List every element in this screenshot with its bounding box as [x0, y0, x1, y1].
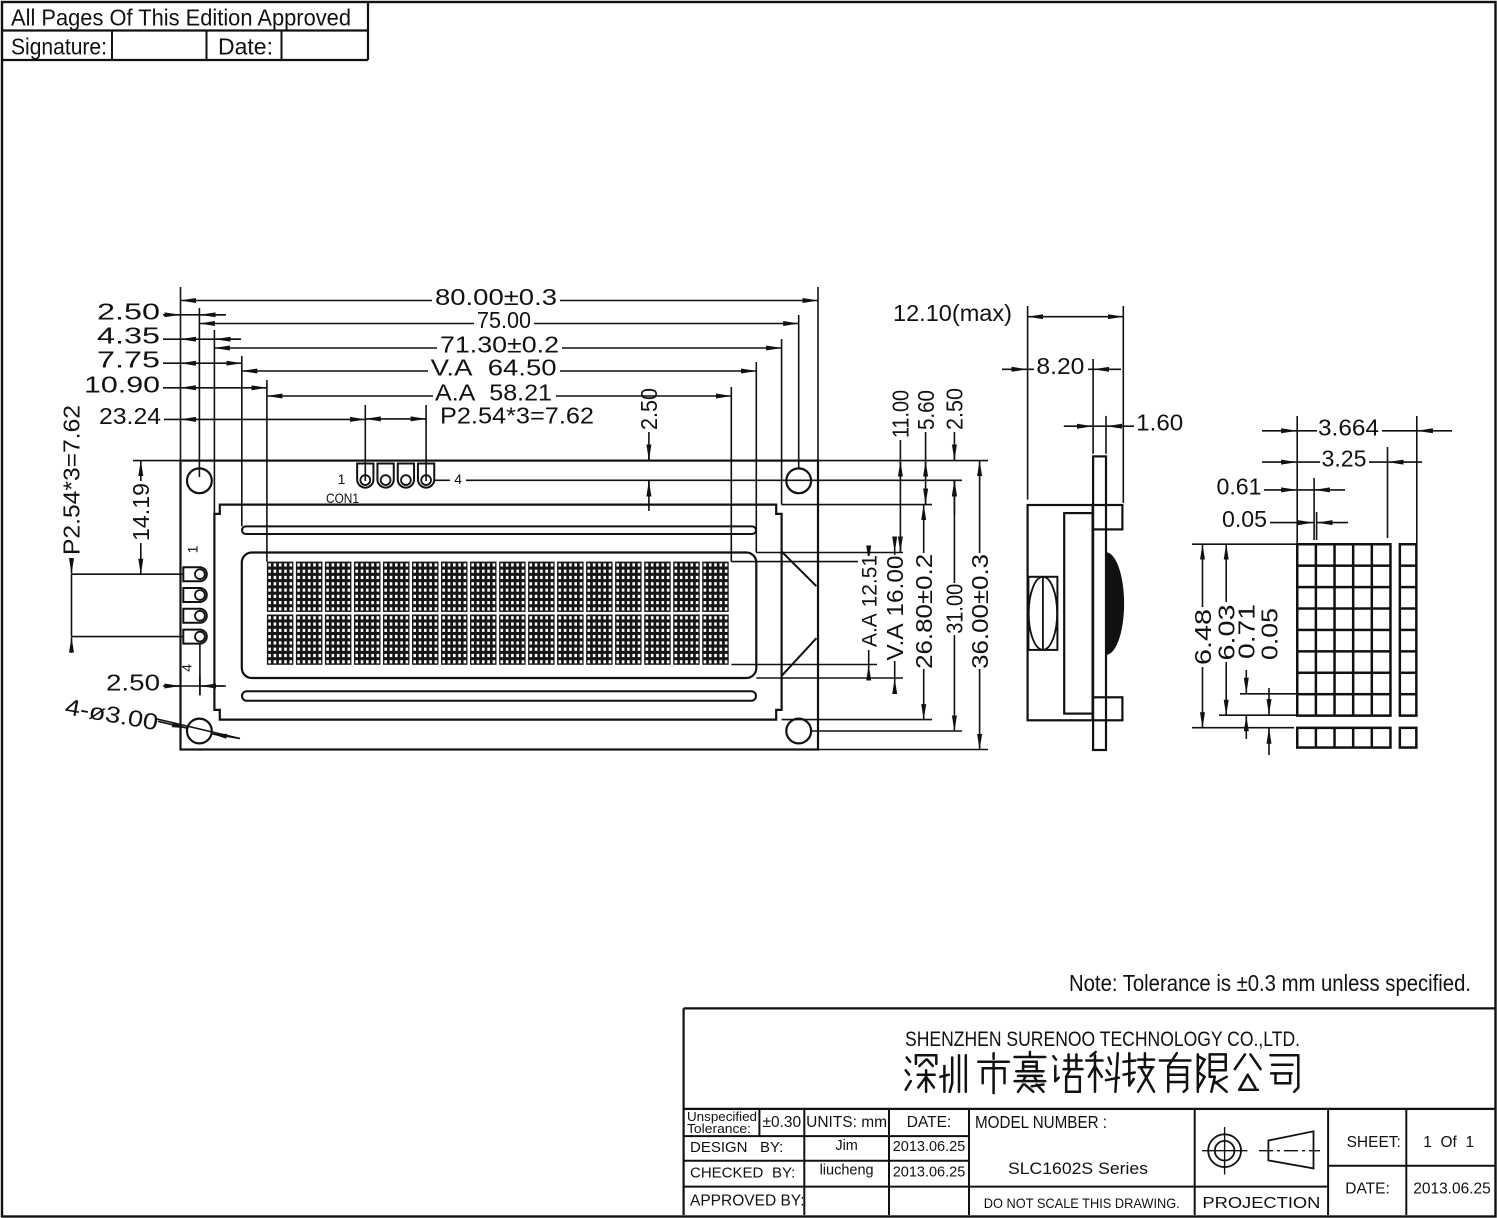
detail dimension 0.71 [1245, 670, 1247, 693]
svg-text:DO NOT SCALE THIS DRAWING.: DO NOT SCALE THIS DRAWING. [984, 1195, 1180, 1211]
mounting hole top-left [187, 468, 212, 493]
detail dimension 0.61 [1313, 478, 1315, 540]
svg-text:1: 1 [185, 545, 201, 553]
svg-text:±0.30: ±0.30 [762, 1114, 801, 1131]
svg-text:Note: Tolerance is ±0.3 mm unl: Note: Tolerance is ±0.3 mm unless specif… [1069, 970, 1471, 996]
left connector pads [183, 567, 207, 643]
svg-text:75.00: 75.00 [477, 307, 531, 333]
side view COB blob [1106, 552, 1124, 655]
svg-text:0.05: 0.05 [1256, 608, 1282, 660]
svg-text:BY:: BY: [760, 1139, 783, 1156]
side view zebra elastomer [1028, 577, 1057, 650]
svg-text:31.00: 31.00 [942, 584, 968, 634]
detail horizontal extension lines [1192, 543, 1296, 545]
dimension 12.10(max) [1027, 306, 1029, 500]
svg-text:2.50: 2.50 [636, 388, 662, 430]
side view bezel top tab [1093, 505, 1123, 529]
bezel right trapezoid fold lines [782, 552, 817, 587]
svg-text:4: 4 [454, 471, 462, 487]
svg-text:UNITS: mm: UNITS: mm [806, 1114, 887, 1131]
dimension A.A 12.51 [868, 547, 870, 561]
title block frame [682, 1008, 684, 1215]
svg-text:DATE:: DATE: [1345, 1181, 1390, 1198]
svg-text:SHENZHEN SURENOO TECHNOLOGY CO: SHENZHEN SURENOO TECHNOLOGY CO.,LTD. [905, 1028, 1300, 1051]
svg-text:26.80±0.2: 26.80±0.2 [911, 554, 937, 669]
svg-text:3.25: 3.25 [1322, 446, 1367, 472]
dimension 75.00 [199, 323, 798, 325]
svg-text:DATE:: DATE: [907, 1114, 952, 1131]
svg-text:11.00: 11.00 [888, 390, 914, 438]
svg-text:14.19: 14.19 [128, 483, 154, 541]
svg-text:2.50: 2.50 [97, 298, 160, 324]
right extension lines [818, 460, 988, 462]
svg-text:DESIGN: DESIGN [690, 1139, 748, 1156]
detail 6th column [1399, 543, 1418, 717]
detail dimension 0.05 (vertical) [1268, 688, 1270, 715]
dimension A.A 58.21 [267, 395, 731, 397]
svg-text:All Pages Of This Edition Appr: All Pages Of This Edition Approved [11, 5, 351, 31]
svg-text:7.75: 7.75 [97, 347, 160, 373]
svg-text:CHECKED: CHECKED [690, 1165, 764, 1182]
detail dimension 6.48 [1202, 544, 1204, 728]
svg-text:V.A 64.50: V.A 64.50 [431, 355, 557, 381]
svg-text:MODEL NUMBER :: MODEL NUMBER : [975, 1112, 1107, 1132]
dimension 71.30±0.2 [214, 347, 781, 349]
projection symbol [1208, 1134, 1241, 1167]
mounting hole bottom-left [187, 719, 212, 744]
svg-text:0.61: 0.61 [1217, 473, 1262, 499]
svg-text:2013.06.25: 2013.06.25 [893, 1165, 966, 1181]
detail dimension 3.664 [1296, 416, 1298, 543]
dimension V.A 64.50 [242, 370, 757, 372]
svg-text:3.664: 3.664 [1318, 414, 1379, 440]
svg-text:BY:: BY: [772, 1165, 795, 1182]
svg-text:2.50: 2.50 [942, 388, 968, 430]
svg-text:4: 4 [179, 664, 195, 672]
detail dimension 3.25 [1387, 447, 1389, 538]
dimension P2.54*3=7.62 (top) [365, 418, 426, 420]
dimension 14.19 [140, 461, 142, 575]
svg-text:A.A 12.51: A.A 12.51 [859, 555, 882, 647]
svg-text:liucheng: liucheng [820, 1163, 874, 1179]
svg-text:36.00±0.3: 36.00±0.3 [967, 554, 993, 669]
svg-text:8.20: 8.20 [1036, 353, 1084, 379]
extension lines top [180, 287, 182, 461]
svg-text:SHEET:: SHEET: [1347, 1134, 1401, 1151]
detail dimension 6.03 [1225, 544, 1227, 715]
detail 9th row [1296, 727, 1392, 749]
svg-text:Date:: Date: [218, 34, 273, 60]
dimension 1.60 [1105, 416, 1107, 454]
svg-text:Jim: Jim [835, 1138, 858, 1154]
svg-text:SLC1602S Series: SLC1602S Series [1008, 1160, 1148, 1178]
side view bezel body [1028, 505, 1093, 720]
svg-text:2013.06.25: 2013.06.25 [893, 1139, 966, 1155]
bottom-left dimension 2.50 [163, 685, 181, 687]
svg-text:1 Of 1: 1 Of 1 [1423, 1134, 1474, 1151]
svg-text:23.24: 23.24 [99, 403, 161, 429]
svg-text:6.48: 6.48 [1190, 609, 1216, 665]
detail dot grid 5x8 [1296, 543, 1392, 717]
top slot [242, 526, 756, 534]
mounting hole top-right [786, 468, 811, 493]
viewing area window V.A [242, 553, 757, 679]
left offset dimensions [163, 314, 181, 316]
svg-text:5.60: 5.60 [913, 390, 939, 430]
svg-text:Tolerance:: Tolerance: [687, 1121, 751, 1136]
side view bezel bottom tab [1093, 697, 1123, 720]
svg-text:V.A 16.00: V.A 16.00 [882, 556, 908, 661]
connector CON1 pads [357, 464, 434, 488]
mounting hole bottom-right [786, 719, 811, 744]
svg-text:P2.54*3=7.62: P2.54*3=7.62 [59, 405, 85, 555]
left vertical dimension P2.54*3=7.62 [71, 574, 73, 636]
bottom slot [242, 691, 756, 701]
svg-text:P2.54*3=7.62: P2.54*3=7.62 [440, 402, 594, 428]
dimension 80.00±0.3 [181, 300, 819, 302]
svg-text:0.05: 0.05 [1222, 506, 1267, 532]
approval table [2, 29, 368, 31]
svg-text:10.90: 10.90 [84, 371, 160, 397]
detail dimension 0.05 (horizontal) [1316, 512, 1318, 540]
svg-text:12.10(max): 12.10(max) [893, 300, 1012, 326]
dimension 26.80±0.2 [923, 505, 925, 720]
company name chinese (drawn strokes) [906, 1052, 1299, 1093]
front view: PCB outline [181, 461, 819, 750]
svg-text:2.50: 2.50 [106, 670, 160, 696]
dimension 31.00 [953, 480, 955, 731]
bezel outline with notched corners [214, 505, 781, 720]
side view LCD glass [1064, 513, 1092, 714]
dimension 36.00±0.3 [979, 461, 981, 750]
svg-text:1.60: 1.60 [1136, 410, 1183, 436]
side view PCB [1093, 456, 1106, 750]
svg-text:CON1: CON1 [326, 490, 359, 506]
dimension V.A 16.00 [894, 538, 896, 552]
svg-text:APPROVED BY:: APPROVED BY: [690, 1193, 805, 1210]
svg-text:4.35: 4.35 [97, 323, 160, 349]
svg-text:2013.06.25: 2013.06.25 [1413, 1181, 1491, 1198]
dimension 8.20 [1092, 359, 1094, 454]
svg-text:PROJECTION: PROJECTION [1202, 1195, 1320, 1212]
svg-text:1: 1 [338, 471, 346, 487]
svg-text:Signature:: Signature: [11, 34, 107, 60]
